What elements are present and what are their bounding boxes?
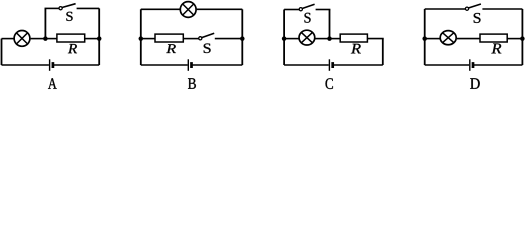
circuit D: wire left rail [424, 9, 426, 65]
circuit A: label A [48, 78, 57, 89]
circuit B: node junction dot right [240, 36, 245, 41]
circuit B: battery cell [188, 59, 191, 71]
circuit C: wire lamp to right node [315, 38, 330, 40]
circuit D: node junction dot left [422, 36, 427, 41]
circuit A: battery cell [50, 59, 53, 71]
circuit D: wire bottom left [425, 64, 469, 66]
circuit A: wire bottom left [2, 64, 49, 66]
circuit A: wire top right segment [77, 7, 100, 9]
circuit B: wire resistor to switch [183, 38, 199, 40]
circuit A: wire lamp to node [31, 38, 46, 40]
circuit B: lamp [180, 2, 196, 18]
circuit C: label R [351, 44, 361, 54]
circuit D: wire lamp to resistor [457, 38, 480, 40]
circuit C: label C [326, 78, 333, 89]
circuit B: wire switch to right node [215, 38, 243, 40]
circuit B: wire top right [197, 8, 242, 10]
circuit C: wire node to lamp [284, 38, 299, 40]
circuit C: wire top loop left [284, 9, 299, 11]
circuit C: switch S [299, 4, 314, 11]
circuit A: lamp [14, 31, 30, 47]
circuit A: node junction dot left [43, 36, 48, 41]
circuit B: wire right rail [241, 9, 243, 65]
circuit C: wire node to resistor [330, 38, 341, 40]
circuit B: wire bottom left [141, 64, 188, 66]
circuit B: node junction dot left [139, 36, 144, 41]
circuit C: node junction dot left [282, 36, 287, 41]
circuit A: resistor R [57, 34, 85, 42]
circuit D: battery cell [470, 59, 473, 71]
circuit A: wire left rail [1, 39, 3, 65]
circuit B: wire top left [141, 8, 180, 10]
circuit D: wire top left [425, 8, 466, 10]
circuit C: resistor R [340, 34, 367, 42]
circuit B: label B [188, 78, 196, 89]
circuit A: wire resistor to right rail [85, 38, 100, 40]
circuit A: label R [68, 44, 77, 53]
circuit D: wire right rail [521, 9, 523, 65]
circuit D: label R [491, 44, 501, 54]
circuit D: resistor R [480, 34, 507, 42]
circuit A: wire bottom right [53, 64, 99, 66]
circuit D: wire resistor to right rail [507, 38, 522, 40]
circuit A: wire right rail [98, 8, 100, 65]
circuit C: label S [305, 13, 311, 23]
circuit B: switch S [199, 33, 215, 40]
circuit A: wire top branch left and top [44, 8, 46, 38]
circuit D: label S [474, 13, 481, 23]
circuit B: label R [166, 44, 176, 53]
circuit C: wire resistor to right rail [367, 38, 383, 40]
circuit D: wire node to lamp [425, 38, 440, 40]
circuit A: label S [66, 12, 72, 21]
circuit C: wire top loop right [316, 9, 331, 11]
circuit C: lamp [299, 30, 315, 45]
circuit B: wire bottom right [192, 64, 243, 66]
circuit D: wire bottom right [473, 64, 522, 66]
circuit D: label D [470, 78, 480, 89]
circuit C: wire bottom right [333, 64, 383, 66]
circuit D: wire top right [482, 8, 522, 10]
circuit A: switch S [59, 4, 76, 10]
circuit A: wire node to resistor [45, 38, 57, 40]
circuit C: wire bottom left [284, 64, 329, 66]
circuit A: node junction dot right [97, 36, 102, 41]
circuit C: battery cell [329, 59, 332, 71]
circuit B: resistor R [155, 34, 183, 42]
circuit C: wire left rail [283, 10, 285, 66]
circuit C: node junction dot right [327, 36, 332, 41]
circuit B: wire left rail [140, 9, 142, 65]
circuit D: lamp [440, 31, 456, 45]
circuit B: wire node to resistor [141, 38, 155, 40]
circuit B: label S [204, 44, 211, 54]
circuit D: switch S [465, 4, 481, 10]
circuit A: wire left stub to lamp [2, 38, 15, 40]
circuit D: node junction dot right [520, 36, 525, 41]
